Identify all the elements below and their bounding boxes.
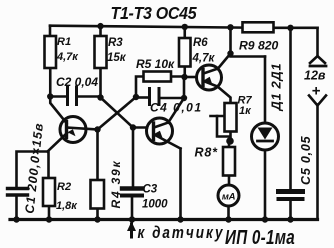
svg-text:1,8к: 1,8к (56, 200, 78, 212)
svg-text:R9 820: R9 820 (239, 39, 279, 53)
svg-text:Т1-Т3 ОС45: Т1-Т3 ОС45 (111, 3, 198, 23)
svg-text:+: + (312, 83, 321, 100)
svg-text:Д1 2Д1: Д1 2Д1 (269, 63, 284, 112)
svg-text:С2 0,04: С2 0,04 (56, 75, 98, 89)
svg-text:мА: мА (222, 192, 236, 203)
svg-text:15к: 15к (107, 52, 127, 64)
svg-text:R4 39к: R4 39к (109, 160, 123, 209)
svg-text:С5 0,05: С5 0,05 (299, 135, 313, 185)
svg-text:R6: R6 (193, 37, 208, 49)
svg-text:R3: R3 (108, 37, 123, 49)
svg-text:R5 10к: R5 10к (136, 57, 175, 71)
svg-text:ИП 0-1ма: ИП 0-1ма (225, 226, 295, 248)
svg-text:1000: 1000 (142, 199, 168, 211)
svg-text:1к: 1к (239, 105, 252, 117)
svg-text:R8*: R8* (195, 146, 219, 160)
svg-text:к датчику: к датчику (138, 225, 225, 242)
svg-text:R1: R1 (57, 36, 71, 48)
svg-text:12в: 12в (304, 69, 326, 83)
svg-text:С4 0,01: С4 0,01 (150, 101, 203, 115)
svg-text:R2: R2 (57, 181, 71, 193)
svg-text:С3: С3 (143, 184, 158, 196)
svg-text:4,7к: 4,7к (192, 53, 216, 65)
svg-text:4,7к: 4,7к (56, 51, 79, 63)
